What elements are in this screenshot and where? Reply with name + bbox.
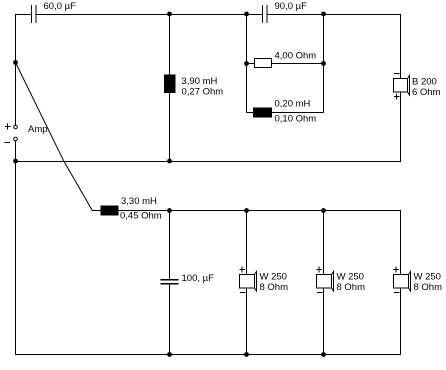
capacitor 60,0 uF plates	[32, 5, 37, 23]
svg-text:0,20 mH: 0,20 mH	[275, 99, 311, 110]
wire top rail middle segment	[37, 14, 262, 16]
svg-text:0,10 Ohm: 0,10 Ohm	[275, 114, 317, 125]
wire diagonal from amp node to woofer inductor	[16, 63, 93, 211]
speaker W 250 #3 cone	[409, 272, 411, 292]
wire inductor 3,90 mH branch upper	[169, 14, 171, 75]
svg-text:8 Ohm: 8 Ohm	[260, 282, 289, 293]
svg-text:W 250: W 250	[337, 272, 364, 283]
speaker W 250 #3 plus sign	[394, 267, 400, 273]
wire bottom rail	[15, 354, 401, 356]
wire resistor branch right lead	[272, 63, 324, 65]
speaker W 250 #2 box	[317, 275, 332, 289]
amp plus sign	[5, 124, 11, 130]
capacitor 100 uF plates	[161, 280, 179, 284]
node top rail / 3,90 mH branch	[167, 12, 172, 17]
wire top rail left segment	[15, 14, 31, 16]
wire woofer W 250 #2 branch lower	[323, 288, 325, 355]
node top rail / RL network right	[321, 12, 326, 17]
svg-text:0,27 Ohm: 0,27 Ohm	[182, 87, 224, 98]
node woofer rail / 100 uF	[167, 208, 172, 213]
speaker W 250 #1 minus sign	[240, 292, 246, 294]
speaker B 200 minus sign	[394, 73, 400, 75]
node resistor branch right	[321, 61, 326, 66]
amp terminal + circle	[14, 125, 18, 129]
wire top rail right segment	[268, 14, 402, 16]
wire inductor 0,20 mH branch left lead	[247, 112, 255, 114]
speaker B 200 box	[394, 79, 408, 93]
speaker W 250 #1 cone	[255, 272, 257, 292]
svg-text:6 Ohm: 6 Ohm	[412, 87, 441, 98]
wire woofer W 250 #1 branch upper	[246, 210, 248, 275]
svg-text:60,0 µF: 60,0 µF	[44, 1, 77, 12]
speaker W 250 #3 minus sign	[394, 292, 400, 294]
node left rail / tweeter bottom rail	[13, 159, 18, 164]
svg-text:W 250: W 250	[260, 272, 287, 283]
wire woofer W 250 #1 branch lower	[246, 288, 248, 355]
wire inductor 0,20 mH branch right lead	[272, 112, 324, 114]
speaker W 250 #2 minus sign	[317, 292, 323, 294]
node woofer rail / W 250 #1	[244, 208, 249, 213]
svg-text:8 Ohm: 8 Ohm	[414, 282, 443, 293]
svg-text:3,90 mH: 3,90 mH	[182, 76, 218, 87]
wire inductor 3,90 mH branch lower	[169, 93, 171, 163]
svg-text:90,0 µF: 90,0 µF	[275, 1, 308, 12]
svg-text:B 200: B 200	[412, 77, 437, 88]
wire left rail upper (to amp + terminal)	[15, 14, 17, 125]
wire woofer lead stub	[92, 210, 101, 212]
wire woofer W 250 #2 branch upper	[323, 210, 325, 275]
inductor 3,30 mH body	[101, 206, 118, 215]
wire capacitor 100 uF branch upper	[169, 210, 171, 280]
wire RL network right vertical	[323, 14, 325, 113]
capacitor 90,0 uF plates	[263, 5, 268, 23]
svg-text:Amp: Amp	[28, 124, 48, 135]
node bottom rail / W 250 #2	[321, 352, 326, 357]
wire capacitor 100 uF branch lower	[169, 284, 171, 355]
wire woofer W 250 #3 branch upper	[400, 210, 402, 275]
wire left rail lower (from amp - terminal to bottom rail)	[15, 141, 17, 355]
wire RL network left vertical	[246, 14, 248, 113]
inductor 0,20 mH body	[254, 108, 272, 117]
svg-text:W 250: W 250	[414, 272, 441, 283]
amp terminal - circle	[14, 137, 18, 141]
svg-text:4,00 Ohm: 4,00 Ohm	[275, 51, 317, 62]
node woofer rail / W 250 #2	[321, 208, 326, 213]
resistor 4,00 Ohm body	[255, 59, 272, 68]
svg-text:8 Ohm: 8 Ohm	[337, 282, 366, 293]
speaker W 250 #2 cone	[332, 272, 334, 292]
node amp branch junction	[13, 60, 18, 65]
svg-text:3,30 mH: 3,30 mH	[121, 196, 157, 207]
node bottom rail / 100 uF	[167, 352, 172, 357]
inductor 3,90 mH body	[165, 75, 176, 93]
wire B 200 branch upper	[400, 14, 402, 79]
speaker W 250 #1 plus sign	[240, 267, 246, 273]
svg-text:100, µF: 100, µF	[182, 273, 215, 284]
wire B 200 branch lower	[400, 92, 402, 162]
wire woofer top rail	[118, 210, 401, 212]
amp minus sign	[5, 142, 11, 144]
node bottom rail / W 250 #1	[244, 352, 249, 357]
wire woofer W 250 #3 branch lower	[400, 288, 402, 355]
wire resistor branch left lead	[247, 63, 255, 65]
speaker W 250 #1 box	[240, 275, 255, 289]
node resistor branch left	[244, 61, 249, 66]
svg-text:0,45 Ohm: 0,45 Ohm	[120, 211, 162, 222]
speaker W 250 #3 box	[394, 275, 409, 289]
node tweeter bottom rail / 3,90 mH	[167, 159, 172, 164]
speaker W 250 #2 plus sign	[317, 267, 323, 273]
node top rail / RL network left	[244, 12, 249, 17]
wire tweeter bottom rail	[15, 161, 401, 163]
speaker B 200 cone	[408, 76, 410, 96]
speaker B 200 plus sign	[394, 94, 400, 100]
